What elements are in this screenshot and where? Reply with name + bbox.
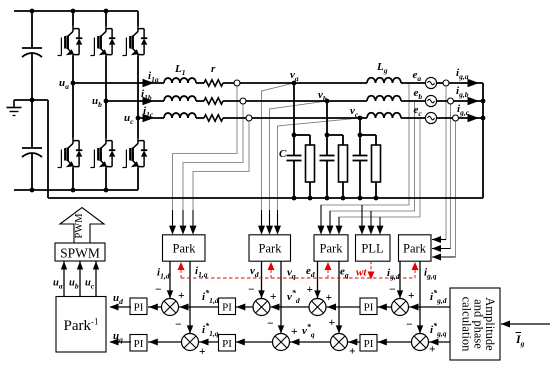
svg-text:PWM: PWM bbox=[74, 213, 85, 239]
svg-text:PI: PI bbox=[134, 338, 144, 350]
svg-text:+: + bbox=[329, 317, 336, 329]
svg-text:Amplitudeand phasecalculation: Amplitudeand phasecalculation bbox=[460, 297, 497, 353]
svg-text:+: + bbox=[326, 292, 333, 304]
svg-text:C: C bbox=[279, 148, 287, 160]
svg-text:wt: wt bbox=[356, 267, 367, 279]
svg-text:SPWM: SPWM bbox=[60, 246, 100, 261]
svg-text:+: + bbox=[408, 290, 415, 302]
svg-text:r: r bbox=[211, 63, 216, 75]
svg-text:−: − bbox=[155, 284, 162, 296]
svg-text:−: − bbox=[175, 319, 182, 331]
svg-text:+: + bbox=[349, 346, 356, 358]
svg-text:PI: PI bbox=[222, 338, 232, 350]
svg-text:Park: Park bbox=[173, 242, 197, 256]
svg-text:Park: Park bbox=[320, 242, 344, 256]
svg-text:−: − bbox=[406, 319, 413, 331]
svg-text:Park: Park bbox=[259, 242, 283, 256]
svg-text:PLL: PLL bbox=[361, 242, 383, 256]
svg-text:Park: Park bbox=[403, 242, 427, 256]
svg-text:PI: PI bbox=[364, 302, 374, 314]
svg-text:PI: PI bbox=[222, 302, 232, 314]
svg-text:−: − bbox=[248, 284, 255, 296]
svg-text:PI: PI bbox=[364, 338, 374, 350]
svg-text:PI: PI bbox=[134, 302, 144, 314]
svg-text:+: + bbox=[178, 290, 185, 302]
svg-text:+: + bbox=[199, 346, 206, 358]
svg-text:+: + bbox=[307, 284, 314, 296]
svg-text:−: − bbox=[267, 318, 274, 330]
svg-text:+: + bbox=[429, 344, 436, 356]
svg-text:+: + bbox=[291, 326, 298, 338]
svg-text:−: − bbox=[389, 284, 396, 296]
svg-text:+: + bbox=[270, 291, 277, 303]
